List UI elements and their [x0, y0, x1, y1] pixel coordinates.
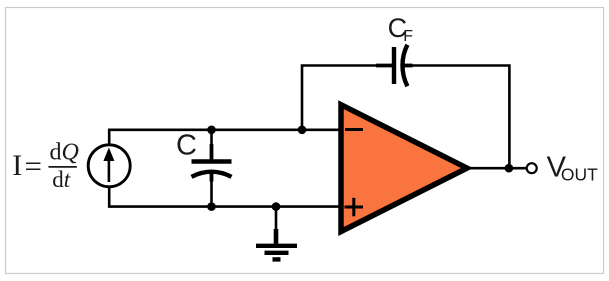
wire feedback right leg — [401, 66, 509, 169]
svg-text:F: F — [403, 28, 413, 45]
node dot ground tap — [272, 202, 281, 211]
svg-text:d: d — [50, 140, 62, 166]
op-amp U1 non-inverting input pin marker (+) — [345, 198, 364, 217]
svg-text:d: d — [52, 167, 64, 192]
value label CF — [388, 13, 414, 45]
node dot C bottom — [207, 202, 216, 211]
value label I = dQ/dt — [12, 140, 79, 192]
svg-text:OUT: OUT — [561, 164, 598, 184]
capacitor C (plates) — [192, 162, 232, 177]
node dot feedback tap — [298, 126, 307, 135]
node dot C top — [207, 126, 216, 135]
wire capacitor C bottom leg — [210, 171, 214, 207]
wire top input net — [109, 130, 341, 144]
current source I1 (circle with upward arrow) — [88, 145, 130, 187]
capacitor CF (feedback, plates) — [394, 45, 407, 86]
wire feedback up leg — [302, 66, 392, 130]
op-amp U1 (triangle body) — [341, 105, 467, 232]
node dot output — [505, 164, 514, 173]
wire capacitor C top leg — [210, 130, 213, 162]
svg-text:Q: Q — [62, 140, 79, 166]
svg-text:C: C — [176, 129, 197, 161]
ground — [256, 207, 297, 260]
svg-text:t: t — [64, 167, 71, 192]
output terminal (open circle) — [527, 163, 537, 173]
svg-text:=: = — [25, 149, 42, 184]
op-amp U1 inverting input pin marker (-) — [345, 128, 363, 131]
wire output — [465, 167, 527, 170]
node label VOUT — [547, 151, 599, 184]
svg-text:I: I — [12, 149, 22, 182]
wire bottom net — [109, 188, 341, 207]
